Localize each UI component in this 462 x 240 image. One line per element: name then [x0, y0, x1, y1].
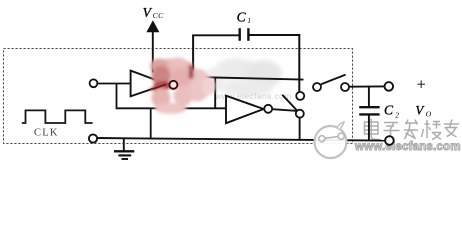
svg-text:C: C [384, 103, 394, 118]
wire C1 right leg down to switch contact [298, 34, 300, 92]
wire C1 left leg [192, 35, 194, 86]
switch S1 upper contact [296, 92, 304, 100]
svg-text:www.elecfans.com: www.elecfans.com [354, 141, 461, 153]
switch S2 right contact [341, 83, 349, 91]
wire C2 bottom leg [368, 116, 370, 141]
dashed box border [4, 49, 353, 144]
wire lower contact to bottom rail [299, 118, 301, 140]
node IN- terminal (bottom-left input) [89, 134, 97, 142]
wire S2 to output terminal [349, 85, 385, 87]
wire C1 top left [192, 34, 239, 36]
svg-text:1: 1 [247, 16, 251, 25]
node IN+ terminal (top-left input) [90, 79, 98, 87]
wire C2 top leg [368, 87, 370, 107]
wire bottom rail [97, 138, 386, 141]
wire branch down [117, 84, 227, 109]
switch S1 lever [282, 95, 297, 111]
op-amp U2 (inverter) [226, 96, 264, 124]
wire junction down to amp2 input [214, 77, 216, 108]
capacitor C2 [359, 106, 379, 108]
svg-text:CC: CC [153, 11, 165, 20]
svg-text:CLK: CLK [34, 128, 59, 139]
capacitor C1 [238, 28, 240, 41]
wire amp1 output to C1 leg [178, 84, 195, 86]
plus polarity mark [417, 80, 425, 88]
amp1 output visible through stamp [153, 84, 167, 89]
red stamp watermark blobs (over circuit) [149, 58, 216, 114]
wire junction down to bottom rail [150, 108, 152, 138]
watermark (right): outlined chinese characters row [365, 119, 460, 141]
watermark logo circle (right, over wire) [315, 122, 347, 158]
svg-text:2: 2 [395, 111, 399, 120]
node B terminal (amp2 output) [264, 105, 272, 113]
node OUT- terminal [385, 136, 394, 145]
node OUT+ terminal [385, 82, 394, 91]
wire mid horizontal (amp1 side to right leg) [193, 77, 303, 80]
svg-text:C: C [237, 9, 247, 24]
switch S2 lever [321, 75, 346, 85]
watermark (faint, center): elecfans blurred gray marks [202, 58, 292, 101]
Vcc supply arrow [152, 31, 154, 73]
switch S2 left contact [313, 83, 321, 91]
node A terminal (amp1 output) [169, 81, 177, 89]
wire amp2 output to switch S1 [272, 109, 296, 111]
ground [114, 138, 134, 159]
CLK waveform [22, 110, 93, 123]
wire C1 top right [250, 34, 301, 36]
svg-text:O: O [426, 110, 432, 119]
op-amp U1 (buffer) [131, 71, 167, 97]
switch S1 lower contact [296, 110, 304, 118]
wire input to amp1 [98, 83, 132, 85]
